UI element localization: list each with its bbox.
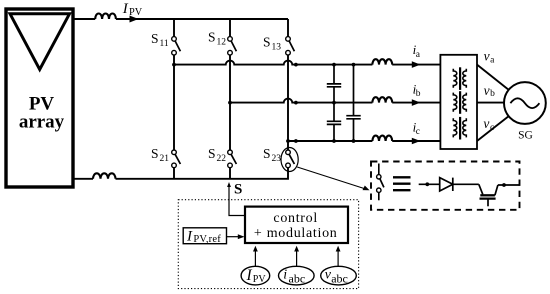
node detail left — [425, 182, 429, 186]
capacitor C1 lower (b-c) — [327, 121, 341, 141]
svg-text:array: array — [19, 112, 65, 133]
svg-text:PV: PV — [129, 7, 143, 18]
current arrow ib — [412, 99, 421, 106]
PV panel triangle — [10, 14, 70, 70]
current arrow ia — [412, 61, 421, 68]
generator SG circle — [504, 82, 546, 124]
svg-text:control: control — [273, 211, 318, 226]
svg-text:S: S — [263, 35, 271, 50]
node cap column2 top — [352, 63, 356, 67]
wire column1 bottom stub — [173, 168, 175, 179]
svg-text:SG: SG — [518, 130, 533, 142]
inductor phase a — [372, 59, 392, 64]
node cap column1 mid — [332, 101, 336, 105]
detail switch — [378, 164, 380, 175]
node cap column2 bottom — [352, 139, 356, 143]
wire phase b with hop — [230, 99, 372, 103]
equivalence sign — [393, 177, 411, 190]
wire detail mid — [453, 183, 479, 185]
inductor phase c — [372, 136, 392, 141]
PV array box — [6, 9, 73, 187]
switch S13 — [286, 37, 295, 55]
wire phase b to transformer — [392, 102, 440, 104]
svg-text:b: b — [416, 89, 421, 99]
IGBT Q — [479, 184, 498, 206]
arrow callout to detail box — [297, 167, 364, 189]
svg-text:abc: abc — [331, 271, 348, 285]
control+modulation box — [245, 207, 348, 243]
signal arrow from vabc — [337, 251, 339, 266]
node phase b dot — [294, 101, 298, 105]
node detail right — [502, 183, 506, 187]
wire detail left — [419, 183, 440, 185]
diode D — [440, 178, 453, 191]
svg-text:c: c — [490, 123, 494, 133]
inductor (bottom) — [93, 173, 116, 178]
svg-text:b: b — [490, 89, 495, 99]
svg-text:S: S — [151, 31, 159, 46]
wire top DC link — [73, 18, 95, 20]
svg-text:a: a — [490, 55, 495, 65]
svg-text:21: 21 — [160, 154, 170, 164]
switch S22 — [228, 150, 237, 168]
transformer T1 — [453, 67, 466, 90]
svg-text:S: S — [208, 146, 216, 161]
switch S23 — [286, 150, 295, 168]
inductor phase b — [372, 97, 392, 102]
svg-text:I: I — [186, 228, 193, 244]
switch S11 — [172, 37, 181, 55]
svg-text:I: I — [246, 267, 253, 284]
svg-text:PV,ref: PV,ref — [193, 234, 221, 245]
svg-text:v: v — [484, 83, 490, 98]
ellipse IPV — [241, 266, 270, 285]
svg-text:+ modulation: + modulation — [254, 226, 338, 241]
node phase c dot — [294, 139, 298, 143]
svg-text:v: v — [484, 49, 490, 64]
svg-text:I: I — [122, 1, 129, 17]
wire bottom bus — [116, 168, 289, 179]
wire column3 mid — [287, 55, 289, 150]
switch S12 — [228, 37, 237, 55]
node phase b tap — [228, 101, 232, 105]
sine wave — [510, 98, 539, 108]
current arrow IPV — [130, 16, 139, 23]
transformer T2 — [453, 91, 466, 114]
wire top bus — [116, 18, 288, 20]
svg-text:S: S — [151, 146, 159, 161]
transformer T3 — [453, 117, 466, 140]
svg-text:S: S — [208, 30, 216, 45]
svg-text:v: v — [483, 116, 489, 131]
svg-text:23: 23 — [272, 154, 282, 164]
transformer box — [440, 55, 477, 149]
wire phase a with hops — [174, 61, 372, 65]
svg-text:abc: abc — [289, 271, 306, 285]
ellipse vabc — [321, 266, 357, 285]
wire vc — [477, 116, 509, 141]
svg-text:11: 11 — [160, 39, 169, 49]
switch S21 — [172, 150, 181, 168]
IPV,ref box — [183, 228, 226, 244]
wire column1 mid — [173, 55, 175, 150]
wire bottom from PV — [73, 178, 93, 180]
inductor L (top) — [95, 14, 116, 20]
wire va — [477, 65, 509, 90]
control dotted box — [178, 200, 358, 289]
svg-text:i: i — [283, 267, 287, 282]
node phase a tap — [172, 63, 176, 67]
capacitor C1 upper (a-b) — [327, 65, 341, 121]
node cap column1 bottom — [332, 139, 336, 143]
svg-text:13: 13 — [272, 43, 282, 53]
svg-text:a: a — [416, 50, 421, 60]
svg-text:S: S — [234, 182, 242, 198]
signal arrow from IPV — [254, 251, 256, 266]
wire detail right — [498, 184, 520, 186]
svg-text:12: 12 — [217, 38, 227, 48]
wire phase c — [288, 140, 372, 142]
svg-text:PV: PV — [253, 274, 267, 285]
wire vb — [477, 102, 504, 104]
wire phase a to transformer — [392, 64, 440, 66]
ellipse highlight around S23 — [281, 148, 298, 172]
node cap column1 top — [332, 63, 336, 67]
wire column1 top drop — [173, 19, 175, 37]
wire column3 top drop — [287, 19, 289, 37]
capacitor C2 (a-c) — [346, 65, 360, 141]
current arrow ic — [412, 138, 421, 145]
ellipse iabc — [279, 266, 315, 285]
signal arrow from iabc — [296, 251, 298, 266]
node phase c tap — [286, 139, 290, 143]
signal S wire — [229, 184, 245, 216]
signal arrow IPV,ref — [227, 236, 239, 238]
wire column2 mid — [229, 55, 231, 150]
wire column2 bottom stub — [229, 168, 231, 179]
svg-text:22: 22 — [217, 154, 227, 164]
wire column2 top drop — [229, 19, 231, 37]
node phase a dot — [294, 63, 298, 67]
detail dashed box — [371, 162, 520, 210]
svg-text:c: c — [416, 127, 420, 137]
svg-text:S: S — [263, 146, 271, 161]
wire phase c to transformer — [392, 140, 440, 142]
